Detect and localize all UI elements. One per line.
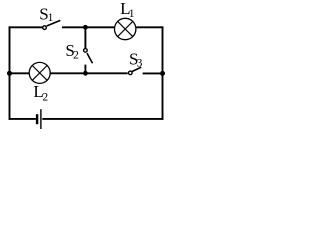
svg-text:1: 1 — [129, 8, 135, 20]
wire top segment S1 to L1 — [62, 26, 115, 28]
wire top segment left of S1 — [9, 26, 43, 28]
wire middle segment L2 to S3 — [50, 72, 128, 74]
svg-text:3: 3 — [137, 58, 143, 70]
wire middle segment left of L2 — [10, 72, 30, 74]
label L1 — [120, 0, 135, 20]
wire middle segment right of S3 — [143, 72, 163, 74]
wire bottom segment right of battery — [42, 118, 163, 120]
label S2 — [65, 41, 79, 61]
lamp L2 — [29, 62, 50, 83]
wire S2 branch upper — [84, 27, 86, 49]
wire bottom segment left of battery — [9, 118, 36, 120]
svg-text:1: 1 — [48, 12, 54, 24]
node junction right edge / middle wire — [160, 71, 165, 76]
wire S2 branch lower stub — [84, 65, 86, 74]
wire left side — [9, 26, 11, 119]
svg-text:2: 2 — [73, 50, 79, 62]
label S1 — [39, 4, 53, 24]
svg-text:2: 2 — [42, 92, 48, 104]
label S3 — [129, 49, 143, 69]
switch S2 — [84, 49, 93, 64]
battery cell: long thin positive plate — [40, 109, 42, 129]
node junction top of S2 branch — [83, 25, 88, 30]
wire right side — [162, 26, 164, 119]
node junction left edge / middle wire — [7, 71, 12, 76]
label L2 — [33, 82, 48, 104]
switch S3 — [129, 67, 142, 75]
switch S1 — [43, 20, 61, 29]
battery cell: short thick negative plate — [36, 114, 38, 124]
wire top segment right of L1 — [136, 26, 164, 28]
node junction bottom of S2 branch — [83, 71, 88, 76]
lamp L1 — [115, 18, 136, 39]
